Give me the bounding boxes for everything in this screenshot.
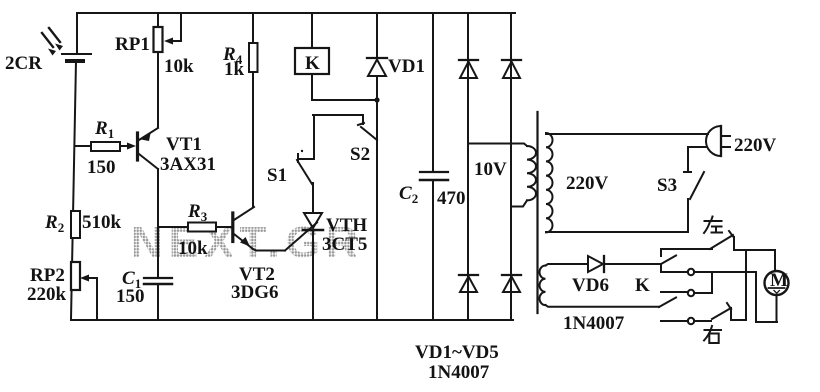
diode VD1 bbox=[367, 13, 425, 320]
motor M bbox=[765, 270, 789, 322]
wire node2 joins node1 line bbox=[694, 272, 712, 293]
connector node 2 bbox=[688, 290, 694, 296]
wire VT2 emitter to VTH gate bbox=[253, 249, 285, 251]
svg-text:K: K bbox=[635, 275, 650, 296]
bridge rail left bbox=[467, 13, 469, 320]
svg-text:220V: 220V bbox=[734, 135, 777, 156]
transistor VT1 3AX31 bbox=[138, 128, 216, 175]
transformer secondary 10V winding bbox=[468, 144, 536, 207]
wire primary top to plug bbox=[546, 133, 708, 135]
svg-text:220k: 220k bbox=[27, 284, 67, 305]
resistor R4 1k bbox=[222, 13, 258, 80]
svg-text:10k: 10k bbox=[178, 238, 208, 259]
transistor VT2 3DG6 bbox=[231, 207, 279, 303]
svg-text:1N4007: 1N4007 bbox=[563, 313, 625, 334]
relay contact K upper bbox=[661, 249, 688, 272]
svg-text:470: 470 bbox=[437, 188, 466, 209]
svg-text:1k: 1k bbox=[224, 59, 245, 80]
capacitor C1 150 bbox=[116, 268, 172, 320]
glyph right (Chinese) bbox=[704, 326, 721, 343]
svg-text:S2: S2 bbox=[350, 144, 370, 165]
bridge rail right bbox=[510, 13, 512, 320]
svg-text:S3: S3 bbox=[657, 175, 677, 196]
wire node3 stub left bbox=[661, 320, 688, 322]
photocell 2CR bbox=[5, 28, 91, 74]
wire VT1 collector down bbox=[157, 169, 159, 278]
wire top bus bbox=[77, 12, 515, 14]
resistor R1 150 bbox=[75, 118, 136, 178]
svg-text:150: 150 bbox=[87, 157, 116, 178]
svg-text:220V: 220V bbox=[566, 173, 609, 194]
wire left rail lower bbox=[71, 61, 76, 319]
relay contact K lower bbox=[659, 292, 688, 307]
wire RP1 to VT1 emitter bbox=[157, 52, 159, 127]
svg-text:1N4007: 1N4007 bbox=[428, 362, 490, 383]
wire R4 to VT2 collector bbox=[252, 72, 254, 207]
wire primary bottom to S3 bbox=[546, 199, 688, 232]
svg-text:10k: 10k bbox=[164, 56, 194, 77]
switch S3 bbox=[657, 147, 704, 199]
transformer secondary lower winding bbox=[540, 264, 660, 334]
resistor R3 10k bbox=[158, 201, 233, 259]
svg-text:VD6: VD6 bbox=[572, 275, 609, 296]
svg-text:VD1: VD1 bbox=[388, 56, 425, 77]
resistor R2 510k bbox=[44, 211, 122, 238]
connector node 1 bbox=[688, 269, 694, 275]
diode VD2 bbox=[459, 60, 478, 78]
svg-text:VD1~VD5: VD1~VD5 bbox=[415, 342, 499, 363]
switch S2 bbox=[313, 115, 377, 165]
svg-text:150: 150 bbox=[116, 286, 145, 307]
transformer core bbox=[536, 112, 538, 313]
potentiometer RP1 10k bbox=[115, 13, 194, 77]
svg-text:K: K bbox=[305, 53, 320, 74]
relay coil K bbox=[295, 13, 377, 100]
svg-text:VT1: VT1 bbox=[166, 134, 202, 155]
diode VD5 bbox=[502, 275, 521, 292]
svg-text:3DG6: 3DG6 bbox=[231, 282, 279, 303]
svg-text:RP2: RP2 bbox=[30, 265, 65, 286]
svg-text:VTH: VTH bbox=[326, 215, 367, 236]
connector node 3 bbox=[688, 318, 694, 324]
svg-text:510k: 510k bbox=[82, 212, 122, 233]
switch S1 bbox=[267, 115, 314, 186]
thyristor VTH 3CT5 bbox=[303, 183, 367, 320]
wire left rail upper bbox=[76, 13, 78, 53]
svg-text:S1: S1 bbox=[267, 165, 287, 186]
wire node1 to motor branch bbox=[694, 271, 756, 273]
diode VD3 bbox=[502, 60, 521, 78]
wire bottom bus bbox=[71, 319, 513, 321]
transformer primary 220V winding bbox=[546, 133, 609, 232]
svg-text:RP1: RP1 bbox=[115, 34, 150, 55]
potentiometer RP2 220k bbox=[27, 262, 97, 320]
node K/VD1 junction bbox=[374, 97, 379, 102]
svg-text:3AX31: 3AX31 bbox=[160, 154, 216, 175]
glyph left (Chinese) bbox=[704, 217, 722, 234]
svg-text:2CR: 2CR bbox=[5, 53, 42, 74]
switch left (zuo) bbox=[661, 231, 775, 271]
mains plug 220V bbox=[688, 126, 777, 156]
diode VD6 bbox=[572, 256, 661, 296]
svg-text:10V: 10V bbox=[474, 159, 507, 180]
switch right (you) bbox=[694, 250, 746, 321]
diode VD4 bbox=[459, 275, 478, 292]
svg-text:3CT5: 3CT5 bbox=[322, 234, 367, 255]
capacitor C2 470 bbox=[399, 13, 466, 320]
